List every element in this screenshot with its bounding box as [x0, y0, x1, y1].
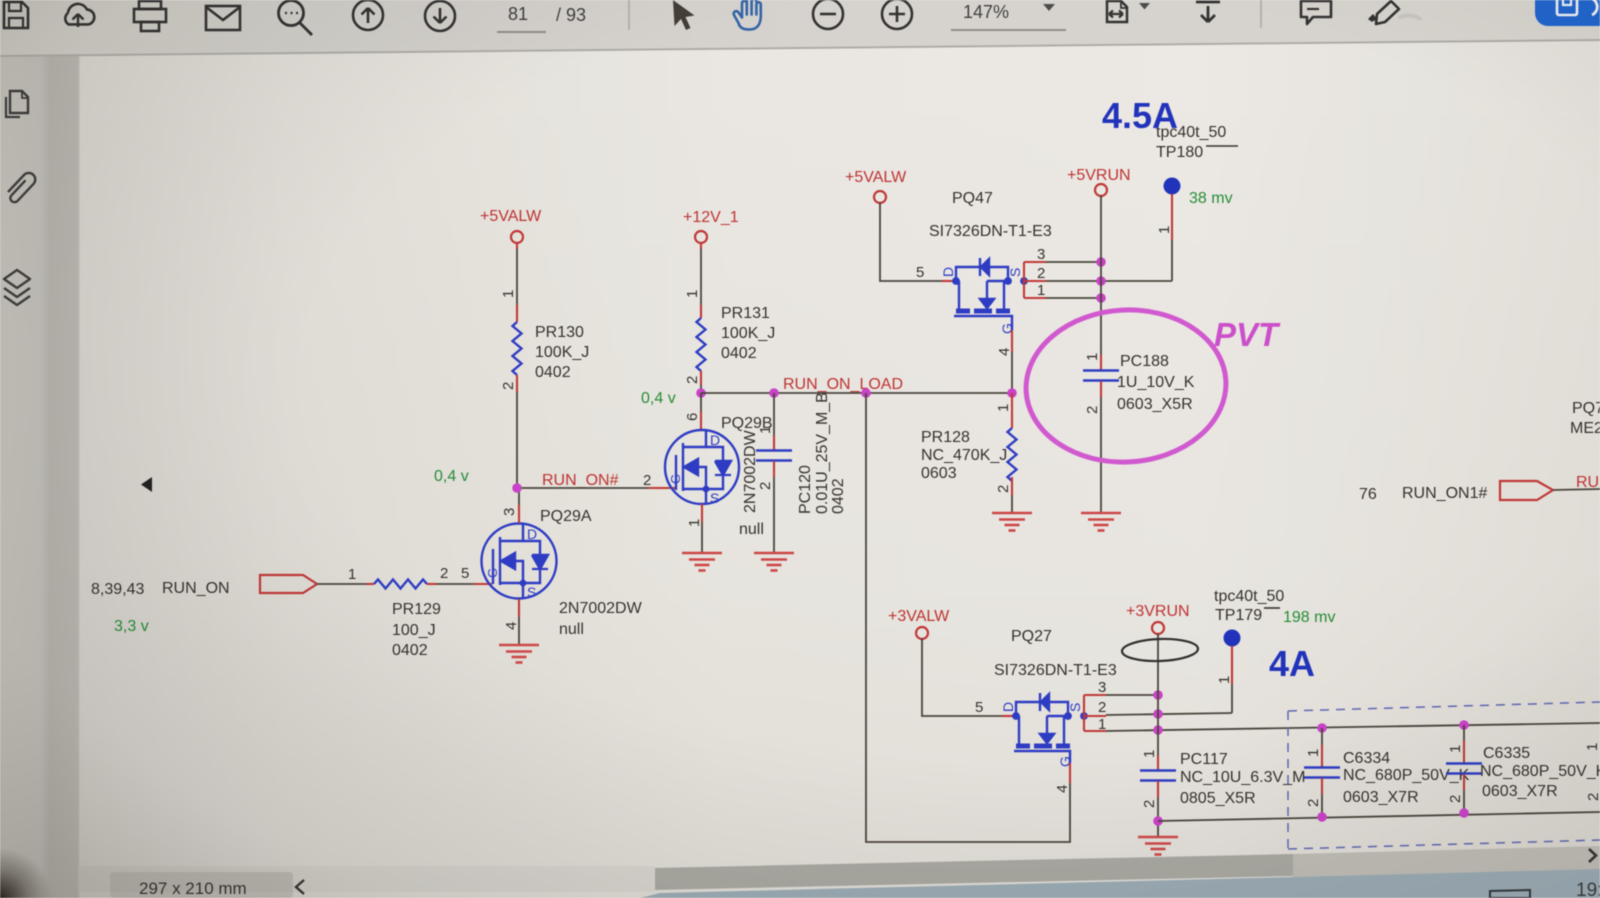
zoom in icon — [882, 0, 912, 29]
pin 4 wire below PQ29A to ground — [518, 599, 520, 617]
ground under PR128 — [992, 513, 1032, 531]
wire PR130 to node — [516, 392, 518, 488]
ground under PQ29A — [499, 645, 539, 663]
wire port to edge — [1553, 489, 1600, 490]
toolbar — [0, 0, 1600, 57]
share/upload icon — [65, 4, 94, 27]
blue action button — [1535, 0, 1600, 26]
pin 2,5 of PQ29A gate wire — [427, 583, 436, 585]
annotation PVT ellipse — [1022, 305, 1230, 467]
pin 1 wire TP180 down to row 2 — [1171, 194, 1173, 240]
taskbar band — [640, 869, 1600, 898]
port RUN_ON1# — [1500, 481, 1553, 500]
junction node RUN_ON# — [512, 483, 522, 493]
ground under PC188 — [1081, 513, 1121, 531]
resistor PR131 — [697, 318, 706, 371]
resistor PR129 — [374, 580, 427, 589]
capacitor PC120 branch — [769, 388, 779, 398]
sidebar icon: paperclip — [8, 173, 35, 202]
cursor tool — [673, 0, 695, 30]
capacitor C6335 — [1459, 720, 1469, 730]
gate pin 4 wire down — [1069, 763, 1071, 783]
junction node PC117 bottom — [1153, 816, 1163, 826]
port RUN_ON — [260, 575, 317, 593]
page down icon — [425, 1, 455, 31]
pin 1 wire TP179 down to row 2 — [1231, 646, 1233, 684]
junction nodes on +5VRUN column — [1096, 257, 1106, 267]
subtle bottom darkening of paper — [0, 0, 1, 1]
wire +3VALW down and right to PQ27 — [922, 639, 1002, 717]
transistor PQ47 (dual power FET) — [952, 258, 1028, 330]
transistor PQ29A (2N7002DW) — [482, 524, 557, 599]
zoom out icon — [813, 0, 843, 29]
junction node on RUN_ON_LOAD at +12V column — [696, 388, 706, 398]
hand tool (active, blue) — [734, 0, 761, 30]
save icon — [4, 2, 28, 28]
sidebar collapse handle — [141, 477, 152, 492]
left sidebar panel — [0, 40, 152, 898]
bottom bars — [110, 846, 1600, 898]
wire port to PR129 — [317, 583, 366, 585]
annotation black ellipse — [1122, 638, 1199, 663]
bottom wire to caps — [1158, 812, 1600, 821]
junction nodes on +3VRUN column — [1153, 690, 1163, 700]
size chip — [110, 872, 293, 898]
scrollbar thumb — [655, 854, 1293, 890]
download-line icon — [1196, 2, 1220, 22]
net RUN_ON_LOAD wire — [701, 392, 1012, 394]
ground under PC120 — [754, 553, 794, 571]
ground under PC117 — [1138, 837, 1178, 855]
wire RUN_ON# to PQ29B gate — [517, 487, 648, 489]
page up icon — [353, 0, 383, 30]
transistor PQ29B (2N7002DW) — [665, 430, 739, 504]
sidebar icon: layers — [4, 270, 30, 305]
transistor PQ27 (dual power FET) — [1012, 693, 1088, 763]
capacitor C6334 — [1317, 723, 1327, 733]
pin rows 3/2/1 of PQ47 — [1023, 262, 1025, 298]
wire +5VALW down and right to PQ47 — [880, 203, 942, 282]
comment icon — [1301, 1, 1331, 24]
wire down from +5VALW — [516, 249, 518, 305]
zoom lens icon — [279, 1, 313, 36]
pen icon — [1398, 13, 1422, 21]
gate pin 4 wire down — [1011, 330, 1013, 352]
fit width icon — [1107, 1, 1128, 22]
wire down from +12V_1 — [700, 249, 702, 305]
dashed selection box — [1288, 702, 1600, 849]
scrollbar right track — [1293, 846, 1600, 878]
wire long loop to PQ27 gate — [866, 393, 1070, 842]
mail icon — [206, 6, 240, 30]
sidebar icon: page thumbnails — [6, 91, 29, 117]
pin 1 wire below PQ29B to ground — [701, 504, 703, 522]
junction node gate/PR128 — [1007, 388, 1017, 398]
ground under PQ29B — [682, 553, 722, 571]
pin rows 3/2/1 of PQ27 — [1083, 695, 1085, 731]
print icon — [134, 1, 166, 31]
subtle scrollbar track band bottom-left — [80, 866, 655, 892]
junction node at x=866 branch down — [861, 388, 871, 398]
resistor PR130 — [513, 322, 522, 375]
